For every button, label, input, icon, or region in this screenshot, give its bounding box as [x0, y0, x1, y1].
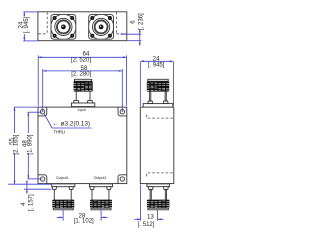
dimension 64 [2.520] above front view: [38, 51, 126, 106]
hidden edge left vertical (dashed): [46, 12, 48, 34]
dimension 6 [.236] right of top view: [121, 13, 145, 46]
side hidden edge top (dashed): [147, 115, 174, 119]
side output base plate: [147, 184, 170, 187]
output2 base plate: [89, 184, 112, 187]
side output bottom rim: [148, 208, 169, 210]
svg-text:← ø3.2(0.13): ← ø3.2(0.13): [52, 120, 90, 127]
hidden edge right horizontal (dashed): [117, 33, 127, 35]
side input feet: [148, 101, 153, 104]
input connector (front view, on top of body): [71, 79, 94, 106]
dimension 24 [.945] above side view: [140, 55, 173, 106]
svg-text:13: 13: [147, 214, 154, 221]
output connector 2 (front view, bottom): [89, 184, 112, 210]
output1 base plate: [52, 184, 75, 187]
svg-text:Input: Input: [78, 108, 86, 112]
svg-text:4: 4: [20, 202, 27, 206]
svg-text:[. 945]: [. 945]: [148, 63, 165, 69]
input top rim: [75, 79, 92, 81]
side output feet: [148, 187, 153, 190]
svg-text:[1. 890]: [1. 890]: [27, 134, 33, 154]
corner tab top-left: [38, 107, 47, 116]
svg-text:[. 157]: [. 157]: [28, 194, 34, 211]
corner tab bottom-right: [118, 175, 127, 184]
svg-text:[1. 102]: [1. 102]: [74, 219, 94, 225]
corner tab bottom-left: [38, 175, 47, 184]
dimension 24 [.945] left of top view: [17, 12, 37, 41]
side output legs: [149, 190, 151, 200]
svg-text:[2. 520]: [2. 520]: [71, 57, 91, 63]
svg-text:[. 512]: [. 512]: [138, 222, 155, 228]
svg-text:24: 24: [153, 55, 160, 62]
svg-text:Output1: Output1: [56, 176, 69, 180]
input base plate: [71, 103, 94, 107]
svg-text:[2. 280]: [2. 280]: [71, 72, 91, 78]
side input threaded coupling: [147, 81, 169, 91]
corner hole top-left: [40, 110, 44, 114]
side input legs: [149, 92, 151, 101]
input connector (side view, on top): [143, 79, 173, 107]
output1 legs: [53, 189, 55, 199]
front view body outline: [38, 107, 127, 184]
dimension 28 [1.102] below outputs: [57, 210, 108, 225]
leader note 4x mounting holes: [44, 114, 91, 135]
corner hole bottom-left: [40, 177, 44, 181]
svg-text:[. 236]: [. 236]: [138, 13, 144, 30]
side hidden edge bottom (dashed): [147, 173, 174, 177]
input threaded coupling (black): [74, 81, 93, 91]
svg-text:THRU: THRU: [53, 130, 64, 135]
side output threaded coupling: [147, 200, 170, 209]
corner hole top-right: [120, 110, 124, 114]
output1 feet: [52, 187, 57, 190]
output connector 1 flange (top view): [51, 14, 76, 39]
corner tab top-right: [118, 107, 127, 116]
svg-text:Output2: Output2: [94, 176, 107, 180]
output2 bottom rim: [91, 208, 111, 210]
input feet: [74, 100, 79, 103]
output connector (side view, bottom): [147, 184, 170, 210]
output2 feet: [90, 187, 95, 190]
output1 threaded coupling: [52, 200, 74, 209]
input legs: [75, 92, 77, 101]
dimension 55 [2.165] left of front view: [8, 107, 51, 184]
output1 bottom rim: [53, 208, 73, 210]
dimension 58 [2.280] above front view: [43, 65, 123, 112]
svg-text:[. 945]: [. 945]: [24, 16, 30, 33]
dimension 4 [.157] bottom left: [20, 181, 51, 211]
hidden edge left horizontal (dashed): [38, 33, 47, 35]
svg-text:[2. 165]: [2. 165]: [13, 134, 19, 154]
output2 legs: [91, 189, 93, 199]
corner hole bottom-right: [120, 177, 124, 181]
svg-text:6: 6: [130, 20, 137, 24]
hidden edge right vertical (dashed): [116, 12, 118, 34]
side view body outline: [140, 107, 174, 184]
top view body outline: [38, 12, 127, 41]
side input top rim: [148, 79, 168, 81]
output connector 2 flange (top view): [89, 14, 114, 39]
dimension 13 [.512] below side view: [134, 185, 163, 228]
dimension 48 [1.890] left of front view: [22, 112, 42, 179]
output connector 1 (front view, bottom): [52, 184, 75, 210]
side input base plate: [143, 104, 173, 108]
output2 threaded coupling: [90, 200, 112, 209]
